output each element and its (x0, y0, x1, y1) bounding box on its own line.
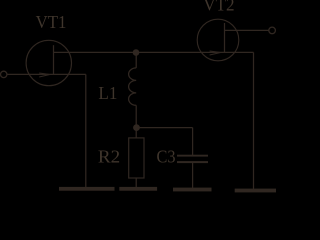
wire R2 to ground (135, 178, 137, 188)
svg-text:R2: R2 (98, 147, 120, 167)
input terminal (1, 71, 7, 77)
ground bar 2 (119, 187, 157, 191)
wire top rail VT1 drain to VT2 gate and source (54, 51, 254, 53)
transistor VT1 (26, 40, 71, 85)
wire top rail to L1 (135, 52, 137, 68)
wire L1 to node (135, 105, 137, 138)
capacitor C3 top plate (177, 155, 208, 157)
output terminal (269, 27, 276, 34)
wire VT2 drain to output (225, 29, 269, 31)
wire VT1 source drop (85, 74, 87, 188)
svg-text:C3: C3 (157, 147, 176, 167)
wire C3 top drop (192, 128, 194, 155)
inductor L1 (129, 68, 137, 105)
svg-text:L1: L1 (98, 83, 117, 103)
svg-text:VT2: VT2 (203, 0, 234, 14)
transistor VT2 (197, 19, 239, 61)
wire C3 bottom drop (192, 163, 194, 189)
ground bar 1 (59, 187, 115, 191)
resistor R2 (129, 138, 144, 178)
node junction dot L1 R2 C3 (133, 124, 140, 131)
wire input to VT1 gate and source turn (7, 73, 86, 75)
ground bar 4 (235, 189, 276, 193)
wire VT2 source drop (253, 52, 255, 189)
capacitor C3 bottom plate (177, 161, 208, 163)
wire node to C3 branch (136, 127, 192, 129)
svg-text:VT1: VT1 (36, 12, 67, 32)
node junction dot on top rail (133, 49, 140, 56)
ground bar 3 (173, 188, 212, 192)
